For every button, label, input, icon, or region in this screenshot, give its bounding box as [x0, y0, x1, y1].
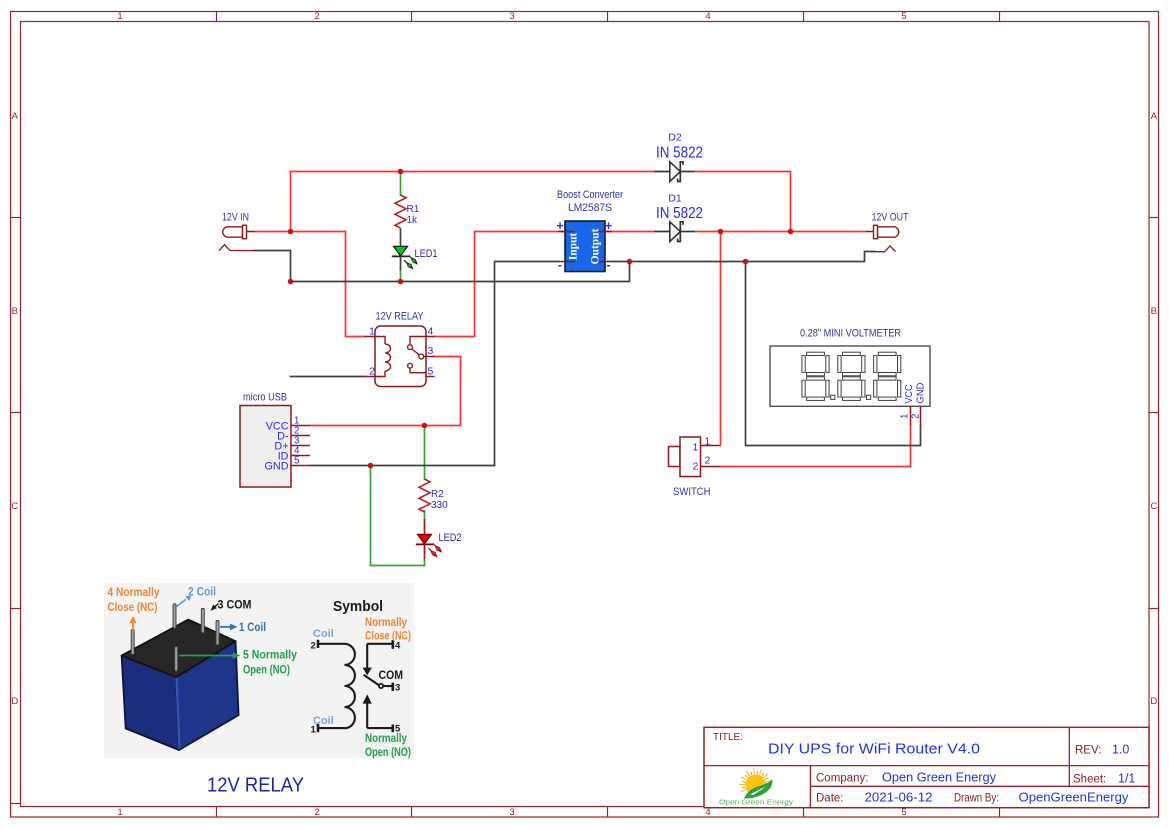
- svg-text:TITLE:: TITLE:: [713, 732, 743, 743]
- svg-text:Date:: Date:: [816, 793, 844, 805]
- svg-text:C: C: [11, 501, 18, 512]
- title block: [704, 727, 1149, 807]
- resistor R1 1k: [395, 195, 420, 228]
- svg-text:Normally: Normally: [365, 617, 408, 629]
- svg-text:Open (NO): Open (NO): [243, 665, 290, 677]
- svg-text:5: 5: [294, 456, 300, 467]
- logo Open Green Energy: [719, 769, 793, 807]
- LED1 green: [392, 228, 438, 270]
- svg-text:Coil: Coil: [313, 628, 334, 640]
- svg-text:1: 1: [369, 326, 375, 338]
- wire D1 to 12V OUT: [695, 231, 867, 233]
- relay coil: [375, 337, 391, 377]
- svg-text:4 Normally: 4 Normally: [108, 587, 161, 599]
- svg-text:Coil: Coil: [313, 715, 334, 727]
- symbol coil: [318, 640, 355, 732]
- wire green R2 to LED2: [424, 511, 426, 521]
- resistor R2 330: [419, 479, 448, 512]
- relay 3d body: [122, 620, 239, 750]
- relay 3d pins: [131, 604, 219, 671]
- svg-text:4: 4: [705, 11, 710, 22]
- svg-text:+: +: [605, 219, 612, 233]
- voltmeter module 0.28" MINI VOLTMETER: [770, 328, 930, 426]
- svg-text:Symbol: Symbol: [333, 599, 383, 615]
- svg-text:5 Normally: 5 Normally: [243, 650, 298, 662]
- svg-text:LED2: LED2: [439, 532, 462, 544]
- wire boost + output to D1: [605, 231, 655, 233]
- wire USB GND line: [310, 465, 495, 467]
- connector P1 12V IN: [219, 212, 255, 251]
- svg-text:IN 5822: IN 5822: [656, 205, 703, 222]
- svg-text:1: 1: [693, 442, 699, 454]
- svg-text:1 Coil: 1 Coil: [239, 622, 266, 634]
- svg-text:DIY UPS for WiFi Router V4.0: DIY UPS for WiFi Router V4.0: [768, 741, 980, 758]
- svg-text:B: B: [12, 306, 18, 317]
- wire relay pin2 to gnd: [291, 376, 365, 378]
- svg-text:3: 3: [428, 345, 434, 357]
- wire 12V junction up to top rail: [291, 172, 655, 232]
- svg-text:2 Coil: 2 Coil: [188, 587, 216, 599]
- svg-text:12V OUT: 12V OUT: [872, 212, 909, 224]
- svg-text:GND: GND: [916, 383, 927, 404]
- svg-text:B: B: [1151, 306, 1157, 317]
- diode D2 IN 5822: [655, 132, 704, 182]
- wire 12V OUT rail down to switch pin1: [720, 232, 722, 446]
- wire boost + input feed from relay pin4: [435, 232, 566, 337]
- svg-text:D2: D2: [668, 132, 682, 144]
- svg-text:1.0: 1.0: [1112, 743, 1129, 757]
- wire green LED2 cathode return to GND: [371, 466, 425, 566]
- svg-text:COM: COM: [379, 668, 404, 682]
- svg-text:1: 1: [705, 436, 711, 448]
- svg-text:Drawn By:: Drawn By:: [954, 793, 999, 805]
- wire 12V IN to relay pin1 drop: [255, 172, 911, 467]
- svg-text:Close (NC): Close (NC): [108, 602, 158, 614]
- svg-text:1/1: 1/1: [1118, 772, 1135, 786]
- svg-text:VCC: VCC: [904, 385, 915, 404]
- svg-text:1: 1: [311, 725, 317, 736]
- svg-text:12V IN: 12V IN: [222, 212, 249, 224]
- svg-text:1: 1: [117, 807, 122, 818]
- svg-text:3 COM: 3 COM: [218, 600, 252, 612]
- svg-text:LM2587S: LM2587S: [568, 202, 612, 214]
- photo annotation texts: [108, 587, 298, 677]
- svg-text:Output: Output: [590, 228, 602, 264]
- svg-text:-: -: [558, 258, 562, 272]
- svg-text:4: 4: [428, 326, 434, 338]
- svg-text:micro USB: micro USB: [243, 392, 287, 404]
- wire gnd drop to voltmeter GND: [746, 262, 921, 446]
- svg-text:R1: R1: [407, 204, 420, 215]
- connector P2 12V OUT: [866, 212, 909, 252]
- svg-text:REV:: REV:: [1075, 745, 1101, 757]
- wire 12V IN pin2 to gnd rail: [255, 251, 291, 282]
- svg-text:1k: 1k: [407, 215, 419, 226]
- svg-text:LED1: LED1: [415, 248, 438, 260]
- svg-text:2: 2: [314, 807, 319, 818]
- svg-text:Open Green Energy: Open Green Energy: [882, 771, 997, 785]
- wire boost - input to USB GND: [495, 262, 559, 466]
- svg-text:A: A: [12, 111, 19, 122]
- svg-text:2: 2: [911, 414, 922, 419]
- switch SW1: [669, 436, 720, 499]
- wire green R1 top: [400, 172, 402, 195]
- svg-text:2021-06-12: 2021-06-12: [865, 791, 933, 805]
- svg-text:5: 5: [901, 807, 906, 818]
- wire gnd rail horizontal: [291, 262, 630, 282]
- junction dots: [288, 169, 794, 469]
- svg-text:C: C: [1150, 501, 1157, 512]
- svg-text:3: 3: [509, 807, 514, 818]
- svg-text:5: 5: [901, 11, 906, 22]
- svg-text:12V RELAY: 12V RELAY: [376, 311, 425, 323]
- symbol contacts: [364, 640, 393, 732]
- svg-text:2: 2: [693, 461, 699, 473]
- wire relay pin3 to USB VCC: [310, 357, 461, 426]
- wire switch pin2 to voltmeter VCC: [720, 426, 911, 467]
- svg-text:IN 5822: IN 5822: [656, 145, 703, 162]
- svg-text:Company:: Company:: [816, 773, 868, 785]
- wire green LED1 cathode to gnd rail: [400, 269, 402, 282]
- LED2 red: [416, 519, 462, 559]
- svg-text:4: 4: [705, 807, 710, 818]
- svg-text:12V RELAY: 12V RELAY: [207, 774, 304, 797]
- svg-text:Open (NO): Open (NO): [365, 747, 411, 759]
- svg-text:A: A: [1151, 111, 1158, 122]
- svg-text:D: D: [1150, 696, 1157, 707]
- svg-text:Open Green Energy: Open Green Energy: [719, 798, 793, 807]
- relay K1 12V RELAY: [365, 311, 435, 387]
- svg-text:330: 330: [431, 500, 448, 511]
- svg-text:2: 2: [314, 11, 319, 22]
- wire green VCC junction down to R2: [424, 426, 426, 480]
- svg-text:3: 3: [509, 11, 514, 22]
- svg-text:2: 2: [705, 455, 711, 467]
- relay contacts: [408, 337, 426, 373]
- micro USB connector J1: [240, 392, 310, 488]
- diode D1 IN 5822: [655, 193, 704, 242]
- svg-text:3: 3: [395, 683, 400, 694]
- photo annotation arrows: [130, 596, 241, 659]
- svg-text:D1: D1: [668, 193, 682, 205]
- svg-text:1: 1: [900, 414, 911, 419]
- svg-text:2: 2: [369, 366, 375, 378]
- svg-text:OpenGreenEnergy: OpenGreenEnergy: [1019, 791, 1130, 805]
- svg-text:-: -: [606, 258, 610, 272]
- boost converter module U1 LM2587S: [556, 189, 623, 272]
- svg-text:GND: GND: [265, 461, 289, 473]
- wire D2 cathode to output rail: [695, 172, 791, 232]
- svg-text:Normally: Normally: [365, 733, 408, 745]
- relay photo panel: [104, 583, 414, 797]
- svg-text:R2: R2: [431, 489, 444, 500]
- svg-text:Sheet:: Sheet:: [1073, 774, 1106, 786]
- svg-text:+: +: [556, 219, 563, 233]
- svg-text:1: 1: [117, 11, 122, 22]
- svg-text:5: 5: [428, 366, 434, 378]
- svg-text:0.28" MINI VOLTMETER: 0.28" MINI VOLTMETER: [800, 328, 901, 340]
- svg-text:D: D: [11, 696, 18, 707]
- svg-text:Boost Converter: Boost Converter: [557, 189, 623, 201]
- wire boost - output rail: [612, 252, 875, 262]
- svg-text:2: 2: [311, 641, 316, 652]
- svg-text:Input: Input: [568, 233, 580, 261]
- svg-text:Close (NC): Close (NC): [365, 631, 411, 643]
- svg-text:SWITCH: SWITCH: [673, 486, 711, 498]
